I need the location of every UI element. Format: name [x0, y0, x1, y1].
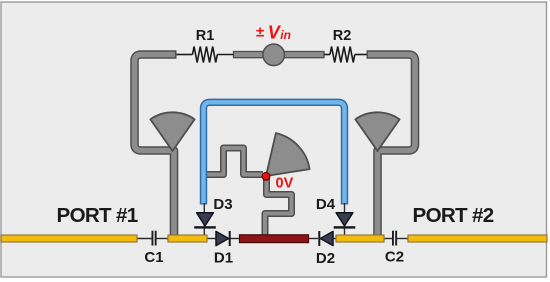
diode D2 (series, pointing left) [318, 231, 333, 246]
wire: thin leads along bottom RF path [135, 238, 409, 240]
svg-text:in: in [280, 28, 291, 42]
resistor R2 [324, 47, 367, 63]
svg-text:R2: R2 [333, 28, 352, 44]
source Vin (gray circle) [263, 44, 285, 66]
diode D3 (shunt, pointing down) [194, 213, 216, 229]
capacitor C2 (DC block) [392, 231, 397, 246]
node 0V (red junction dot) [262, 172, 270, 180]
microstrip line PORT #1 (yellow) [1, 235, 137, 242]
radial stub (left, on bias feed) [150, 112, 194, 151]
svg-text:D3: D3 [213, 196, 232, 213]
microstrip segment between D2 and C2 (yellow) [336, 235, 384, 242]
svg-text:C2: C2 [385, 249, 404, 266]
wire: left bias feed from R1 (thick gray, down left side to left radial stub) [135, 55, 177, 237]
wire: thin lead blue line to D3 and D3 to microstrip [203, 203, 205, 236]
wire: thick gray lead right of Vin source [284, 52, 324, 58]
svg-text:D1: D1 [214, 250, 233, 267]
common junction bar between D1 and D2 (dark red) [240, 235, 309, 243]
wire: thick gray lead left of Vin source [234, 52, 265, 58]
diode D1 (series, pointing right) [216, 231, 231, 246]
wire: right bias feed from R2 (thick gray, down right side to right radial stub) [367, 55, 416, 237]
wire: blue control line (inverted U) to D3 and D4 [204, 102, 345, 204]
diode D4 (shunt, pointing down) [334, 213, 356, 229]
wire: gray meander from 0V node down to common junction bar [265, 177, 292, 238]
wire: gray meander from blue control line to 0V node [202, 148, 263, 175]
wire: thin lead blue line to D4 and D4 to microstrip [344, 203, 346, 236]
svg-text:0V: 0V [276, 176, 294, 192]
microstrip line PORT #2 (yellow) [408, 235, 547, 242]
svg-text:PORT #1: PORT #1 [57, 204, 138, 227]
svg-text:C1: C1 [144, 249, 163, 266]
capacitor C1 (DC block) [152, 231, 157, 246]
microstrip segment between C1 and D1 (yellow) [168, 235, 207, 242]
svg-text:D4: D4 [316, 196, 336, 213]
radial stub (center, at 0V node) [266, 133, 310, 176]
svg-text:±: ± [256, 24, 264, 41]
radial stub (right, on bias feed) [355, 112, 399, 151]
svg-text:D2: D2 [316, 250, 335, 267]
svg-text:R1: R1 [196, 28, 215, 44]
resistor R1 [177, 47, 234, 63]
svg-text:PORT #2: PORT #2 [413, 204, 494, 227]
